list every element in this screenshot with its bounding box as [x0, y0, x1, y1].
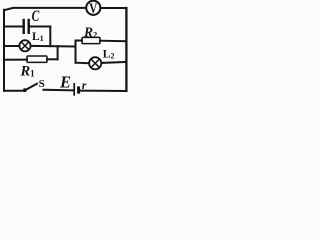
resistor R1	[27, 56, 47, 62]
svg-text:V: V	[89, 0, 97, 16]
svg-text:C: C	[32, 7, 40, 24]
voltmeter V	[86, 0, 100, 16]
wire R1 riser to middle wire	[57, 46, 59, 59]
wire capacitor branch left	[4, 26, 23, 28]
svg-text:r: r	[82, 78, 87, 92]
wire bottom-left (rail to switch)	[4, 90, 24, 92]
switch S	[23, 83, 38, 92]
wire left rail	[3, 10, 5, 91]
wire bottom-mid (switch to battery)	[44, 89, 74, 92]
battery E,r	[74, 83, 78, 96]
wire R1 branch left	[4, 59, 27, 61]
wire capacitor branch drop to node	[49, 27, 51, 47]
wire capacitor branch right	[30, 26, 51, 28]
capacitor C plates	[24, 19, 29, 34]
wire R2 branch right	[100, 40, 126, 43]
wire R2 branch left	[76, 40, 83, 42]
svg-text:S: S	[39, 78, 45, 90]
lamp L1	[19, 40, 30, 51]
node junction vertical (R2/L2 split)	[75, 41, 77, 63]
resistor R2	[82, 37, 100, 43]
wire right rail	[125, 8, 127, 91]
svg-text:E: E	[59, 72, 71, 91]
wire top-left (left rail to voltmeter)	[4, 8, 86, 10]
wire bottom-right (battery to right rail)	[80, 90, 126, 92]
wire L2 branch right	[102, 62, 127, 63]
wire middle-left (rail to lamp L1)	[4, 45, 19, 47]
wire middle (lamp L1 to junction)	[31, 45, 76, 48]
wire R1 branch right	[47, 58, 58, 60]
wire L2 branch left	[76, 62, 90, 65]
wire top-right (voltmeter to right rail)	[101, 7, 127, 9]
lamp L2	[89, 57, 101, 69]
